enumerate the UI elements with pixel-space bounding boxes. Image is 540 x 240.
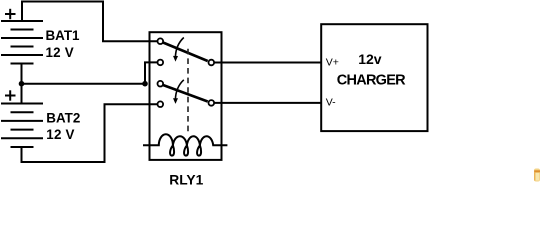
wire BAT2 bottom to relay contact 4 — [22, 104, 158, 162]
actuation arrow pole 1 — [173, 38, 184, 62]
svg-text:CHARGER: CHARGER — [337, 73, 406, 89]
svg-text:BAT1: BAT1 — [46, 28, 81, 43]
svg-text:V+: V+ — [326, 57, 339, 69]
switch pole 1 common contact — [209, 60, 215, 66]
relay coil L1 — [143, 134, 227, 155]
switch lever pole 1 — [163, 43, 208, 62]
wire common feed vertical to contact 2 — [145, 62, 157, 83]
battery BAT1 — [1, 21, 43, 64]
charger U1 box — [321, 24, 427, 131]
contact pin 1 (NC top) — [158, 38, 164, 44]
watermark fragment — [534, 169, 540, 182]
actuation arrow pole 2 — [173, 80, 184, 104]
svg-text:BAT2: BAT2 — [46, 110, 80, 125]
wire pole2 common to charger V- — [214, 102, 321, 104]
svg-text:12 V: 12 V — [46, 127, 74, 142]
contact pin 4 — [158, 101, 164, 107]
relay RLY1 box — [150, 32, 222, 160]
junction node between batteries — [19, 81, 25, 87]
switch lever pole 2 — [163, 85, 208, 102]
dashed actuator link — [187, 49, 189, 132]
wire junction to BAT2 top — [21, 84, 23, 104]
battery BAT2 plus sign — [5, 90, 16, 100]
contact pin 2 — [158, 60, 164, 66]
svg-text:RLY1: RLY1 — [169, 173, 203, 186]
battery BAT2 — [1, 104, 43, 148]
svg-text:V-: V- — [326, 97, 336, 109]
switch pole 2 common contact — [209, 100, 215, 106]
svg-text:12v: 12v — [358, 51, 382, 67]
junction node at relay common — [142, 81, 148, 87]
contact pin 3 — [158, 81, 164, 87]
wire pole1 common to charger V+ — [214, 62, 321, 64]
svg-text:12 V: 12 V — [46, 45, 74, 60]
battery BAT1 plus sign — [5, 9, 16, 19]
wire junction to relay common — [22, 83, 146, 85]
wire BAT1 bottom to junction — [21, 64, 23, 84]
wire BAT1 top to relay contact 1 — [22, 2, 157, 42]
